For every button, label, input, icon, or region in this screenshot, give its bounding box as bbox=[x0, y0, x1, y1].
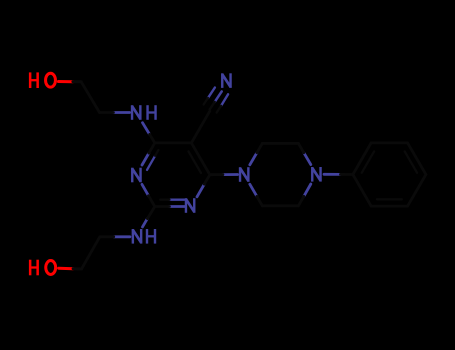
bond N(pip1)-C6 bbox=[223, 173, 238, 176]
bond piperazine bottom CH2-CH2 bbox=[262, 204, 298, 207]
label piperazine N4 bbox=[311, 167, 313, 182]
triple bond C#N middle line bbox=[215, 91, 222, 102]
phenyl bond C4-C5 bbox=[408, 175, 426, 207]
phenyl bond C1-C2 bbox=[353, 143, 371, 175]
bond NH(top)-C4 bbox=[143, 123, 150, 135]
phenyl inner line 2 bbox=[405, 151, 417, 172]
label nitrile N bbox=[221, 73, 223, 88]
label NH top: N bbox=[131, 105, 133, 120]
bond CH2-CH2 bottom chain bbox=[82, 237, 100, 269]
bond N3=C2 inner line bbox=[169, 199, 184, 201]
bond N3-C6 bbox=[197, 184, 204, 197]
label piperazine N1 bbox=[239, 167, 241, 182]
bond CH2-CH2 top chain bbox=[81, 82, 99, 113]
bond N1=C4 inner line bbox=[147, 156, 155, 170]
bond Npip1-CH2 top-left bbox=[250, 153, 257, 165]
label HO bottom: O bbox=[46, 261, 56, 275]
bond N3=C2 main line bbox=[169, 205, 184, 208]
bond HO(top)-CH2 bbox=[58, 80, 73, 83]
triple bond C#N lower-right line bbox=[221, 94, 228, 106]
label NH bottom: N bbox=[132, 229, 134, 244]
bond C5=C6 main line bbox=[191, 143, 209, 175]
phenyl bond C6-C1 bbox=[353, 175, 371, 207]
bond Npip4-phenyl bbox=[324, 173, 341, 176]
label NH bottom: H bbox=[146, 229, 148, 244]
phenyl bond C5-C6 bbox=[371, 205, 408, 208]
phenyl bond C2-C3 bbox=[371, 141, 408, 144]
label HO top: H bbox=[29, 72, 32, 88]
label HO top: O bbox=[46, 73, 56, 87]
bond NH(top)-CH2 bbox=[113, 111, 129, 114]
label NH top: H bbox=[146, 105, 148, 120]
bond piperazine top CH2-CH2 bbox=[262, 142, 298, 145]
bond HO(bottom)-CH2 bbox=[59, 267, 74, 271]
bond Npip1-CH2 bottom-left bbox=[250, 184, 257, 196]
bond Npip4-CH2 bottom-right bbox=[304, 184, 311, 196]
bond C5=C6 inner line bbox=[189, 151, 202, 173]
triple bond C#N upper-left line bbox=[208, 88, 215, 98]
bond C4-C5 bbox=[155, 141, 192, 144]
label HO bottom: H bbox=[29, 260, 32, 276]
phenyl bond C3-C4 bbox=[408, 143, 426, 175]
bond C5-C(sp) nitrile bbox=[191, 111, 209, 143]
bond NH(bottom)-C2 bbox=[143, 219, 148, 227]
label ring N1 bbox=[131, 168, 133, 183]
phenyl inner line 3 bbox=[377, 198, 402, 200]
bond N1-C2 bbox=[142, 184, 149, 195]
phenyl inner line 1 bbox=[362, 151, 374, 172]
bond N1=C4 main line bbox=[142, 153, 149, 165]
bond NH(bottom)-CH2 bbox=[114, 235, 130, 238]
bond Npip4-CH2 top-right bbox=[304, 153, 311, 165]
label ring N3 bbox=[185, 198, 187, 213]
